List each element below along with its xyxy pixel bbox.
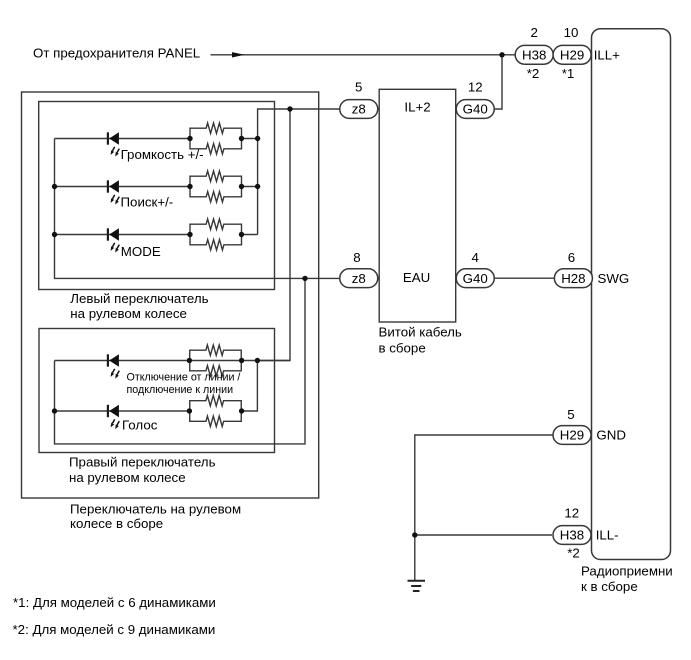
svg-text:подключение к линии: подключение к линии — [127, 384, 234, 396]
svg-text:12: 12 — [564, 506, 579, 521]
svg-text:Переключатель на рулевом: Переключатель на рулевом — [70, 502, 241, 517]
svg-text:10: 10 — [564, 25, 579, 40]
junction: row4 output bus — [255, 358, 260, 363]
junction: row5 resistor left — [187, 408, 192, 413]
resistor pair R2 (Seek) — [190, 171, 242, 202]
svg-text:Голос: Голос — [122, 418, 158, 433]
connector G40 pin 4 — [456, 269, 494, 288]
svg-text:5: 5 — [355, 80, 362, 95]
junction: row3 resistor left — [187, 232, 192, 237]
svg-text:*2: *2 — [567, 546, 580, 561]
outer box: steering wheel switch assembly — [22, 92, 319, 498]
connector H38 pin 12 (ILL-) — [553, 526, 591, 545]
junction: row2 output on bus — [255, 184, 260, 189]
wire: row5 Voice LED to resistors — [55, 410, 190, 412]
inner box: left steering wheel switch — [39, 102, 275, 290]
LED D1 Volume — [108, 132, 119, 156]
junction: row3 resistor right — [239, 232, 244, 237]
wire: ILL- from junction to H38 pin12 — [415, 534, 552, 536]
wire: junction drop from ILL+ feed down to G40 pin 12 — [494, 55, 503, 109]
svg-text:H38: H38 — [522, 47, 546, 62]
junction: GND drop / ILL- branch — [412, 532, 417, 537]
connector H28 pin 6 — [554, 269, 592, 288]
junction: row2 resistor left — [187, 184, 192, 189]
svg-text:к в сборе: к в сборе — [581, 579, 638, 594]
svg-text:*2: *2 — [527, 66, 540, 81]
svg-text:в сборе: в сборе — [379, 341, 426, 356]
svg-text:z8: z8 — [352, 102, 366, 117]
svg-text:H28: H28 — [561, 271, 585, 286]
svg-text:*2: Для моделей с 9 динамиками: *2: Для моделей с 9 динамиками — [13, 622, 216, 637]
svg-text:GND: GND — [596, 428, 626, 443]
wire: right switch resistor bus riser to IL+2 net — [257, 109, 290, 361]
svg-text:Радиоприемни: Радиоприемни — [581, 564, 673, 579]
junction: IL+2 net / right switch riser — [287, 106, 292, 111]
svg-text:Правый переключатель: Правый переключатель — [69, 455, 216, 470]
resistor pair R5 (Voice) — [190, 396, 242, 427]
box: spiral cable assembly — [379, 89, 456, 322]
wire: right switch output bus row4 to row5 — [242, 361, 258, 412]
LED D5 Voice — [108, 405, 119, 429]
junction: row2 cathode bus — [52, 184, 57, 189]
svg-text:*1: Для моделей с 6 динамиками: *1: Для моделей с 6 динамиками — [13, 595, 216, 610]
wire: right switch cathode bus return to EAU net — [55, 278, 306, 444]
svg-text:G40: G40 — [463, 271, 488, 286]
junction: row1 resistor right — [239, 136, 244, 141]
svg-text:8: 8 — [353, 250, 360, 265]
ground — [408, 581, 426, 591]
LED D2 Seek — [108, 180, 119, 204]
svg-text:Громкость +/-: Громкость +/- — [121, 147, 204, 162]
svg-text:G40: G40 — [463, 102, 488, 117]
junction: row4 resistor left — [187, 358, 192, 363]
wire: z8 pin5 to resistor bus (IL+2 net) — [258, 109, 340, 235]
svg-text:2: 2 — [530, 25, 537, 40]
connector G40 pin 12 — [456, 100, 494, 119]
svg-text:SWG: SWG — [598, 271, 630, 286]
svg-text:5: 5 — [567, 407, 574, 422]
wire: row4 line on/off LED to resistors and riser — [55, 360, 291, 362]
junction: row1 output on bus — [255, 136, 260, 141]
connector H38 pin 2 — [515, 45, 553, 64]
svg-text:Отключение от линии /: Отключение от линии / — [127, 372, 241, 384]
svg-text:MODE: MODE — [121, 244, 161, 259]
connector H29 pin 10 — [553, 45, 591, 64]
svg-text:колесе в сборе: колесе в сборе — [70, 516, 163, 531]
wire: row3 MODE LED to resistors — [55, 234, 191, 236]
svg-text:на рулевом колесе: на рулевом колесе — [69, 470, 186, 485]
resistor pair R4 (line on/off) — [190, 345, 242, 376]
svg-text:Левый переключатель: Левый переключатель — [70, 291, 208, 306]
junction: row4 resistor right — [239, 358, 244, 363]
junction: EAU net / right switch return — [302, 276, 307, 281]
wire: row1 Volume LED to resistors — [55, 138, 191, 140]
svg-text:H29: H29 — [560, 47, 584, 62]
svg-text:*1: *1 — [562, 66, 575, 81]
junction: row5 resistor right — [239, 408, 244, 413]
connector z8 pin 8 — [340, 269, 378, 288]
wire: PANEL fuse feed to H38 (ILL+ net) — [211, 54, 516, 56]
box: radio receiver assembly — [592, 29, 671, 560]
connector z8 pin 5 — [340, 100, 378, 119]
svg-text:Поиск+/-: Поиск+/- — [121, 195, 174, 210]
wire: row2 Seek LED to resistors — [55, 186, 191, 188]
junction: row3 cathode bus — [52, 232, 57, 237]
resistor pair R1 (Volume) — [190, 123, 242, 154]
resistor pair R3 (MODE) — [190, 219, 242, 250]
junction: row5 cathode bus — [52, 408, 57, 413]
LED D4 line on/off — [108, 354, 119, 378]
svg-text:ILL-: ILL- — [596, 528, 619, 543]
svg-text:Витой кабель: Витой кабель — [379, 325, 462, 340]
connector H29 pin 5 (GND) — [553, 426, 591, 445]
svg-text:IL+2: IL+2 — [404, 100, 430, 115]
wire: G40 pin4 to H28 pin6 (SWG net) — [494, 277, 555, 279]
wire: H29 pin5 GND to ground — [415, 435, 553, 580]
junction: ILL+ feed / G40 drop — [499, 52, 504, 57]
svg-text:От предохранителя PANEL: От предохранителя PANEL — [33, 46, 200, 61]
svg-text:z8: z8 — [352, 271, 366, 286]
arrow: signal direction on PANEL feed — [232, 52, 245, 57]
svg-text:ILL+: ILL+ — [594, 47, 620, 62]
svg-text:H29: H29 — [560, 428, 584, 443]
svg-text:на рулевом колесе: на рулевом колесе — [70, 306, 187, 321]
wire: left bus of left switch (LED cathode bus to z8 pin8 / EAU net) — [55, 139, 340, 279]
svg-text:EAU: EAU — [403, 270, 430, 285]
junction: row2 resistor right — [239, 184, 244, 189]
junction: row1 resistor left — [187, 136, 192, 141]
svg-text:12: 12 — [468, 80, 483, 95]
LED D3 MODE — [108, 228, 119, 252]
svg-text:H38: H38 — [560, 528, 584, 543]
svg-text:6: 6 — [568, 250, 575, 265]
inner box: right steering wheel switch — [39, 329, 275, 453]
svg-text:4: 4 — [472, 250, 479, 265]
